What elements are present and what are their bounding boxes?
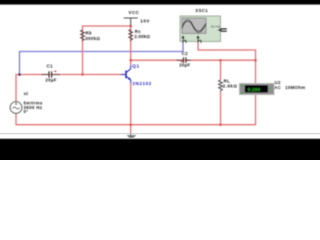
junction RL top node [219, 59, 222, 62]
transistor Q1 [121, 65, 131, 84]
wire bottom rail [16, 95, 256, 125]
VCC power symbol [124, 18, 138, 26]
svg-text:2.6kΩ: 2.6kΩ [223, 84, 238, 89]
wire emitter to ground stub [130, 125, 132, 133]
svg-text:Ext Trig: Ext Trig [211, 24, 220, 28]
wire scope channel A blue [20, 43, 184, 75]
wire top rail VCC to Rb [83, 26, 131, 75]
AC source ui [10, 102, 22, 114]
scope trace sine [182, 20, 206, 31]
multimeter U2 [240, 84, 275, 95]
C2 polarity marker [180, 61, 182, 63]
wire collector chain [130, 26, 132, 65]
svg-text:2N2102: 2N2102 [132, 81, 151, 86]
resistor Rc [129, 30, 133, 42]
resistor RL [219, 80, 223, 92]
svg-text:AC: AC [274, 85, 282, 90]
junction blue-to-base node [18, 73, 21, 76]
scope ext trig terminal [218, 28, 222, 32]
junction emitter bottom rail [129, 123, 132, 126]
wire output line C2 to meter [131, 60, 256, 83]
capacitor C2 [177, 57, 191, 63]
svg-text:C1: C1 [47, 64, 53, 69]
svg-text:2.00kΩ: 2.00kΩ [134, 34, 150, 39]
Q1 emitter arrow [128, 77, 131, 80]
scope terminal A [181, 35, 186, 43]
oscilloscope XSC1 [180, 16, 227, 43]
wire emitter [130, 84, 132, 125]
svg-text:ui: ui [24, 91, 29, 96]
scope terminal B [196, 35, 201, 43]
resistor Rb [81, 30, 85, 41]
junction collector node [129, 59, 132, 62]
wire RL branch [220, 60, 222, 80]
canvas bottom edge line [0, 133, 320, 135]
wire base line [16, 75, 121, 102]
junction VCC node [129, 25, 132, 28]
svg-text:Q1: Q1 [132, 63, 139, 68]
svg-text:20µF: 20µF [179, 63, 190, 68]
wire scope channel B [198, 43, 256, 60]
junction Rb base node [81, 73, 84, 76]
svg-text:C2: C2 [182, 51, 188, 56]
svg-text:0.299: 0.299 [248, 87, 261, 92]
scope trace second [182, 21, 206, 32]
svg-text:Rb: Rb [85, 31, 91, 36]
junction RL bottom rail [219, 123, 222, 126]
capacitor C1 [42, 71, 60, 77]
junction output meter node [254, 59, 257, 62]
letterbox bottom [0, 138, 320, 160]
svg-text:VCC: VCC [129, 10, 140, 15]
svg-text:10V: 10V [140, 19, 150, 24]
svg-text:XSC1: XSC1 [195, 8, 208, 13]
svg-text:20µF: 20µF [45, 77, 56, 82]
ground [127, 133, 137, 140]
svg-text:10MOhm: 10MOhm [285, 85, 305, 90]
svg-text:0°: 0° [24, 109, 29, 114]
C1 polarity marker [53, 71, 56, 73]
letterbox top [0, 0, 320, 6]
svg-text:300kΩ: 300kΩ [85, 36, 100, 41]
